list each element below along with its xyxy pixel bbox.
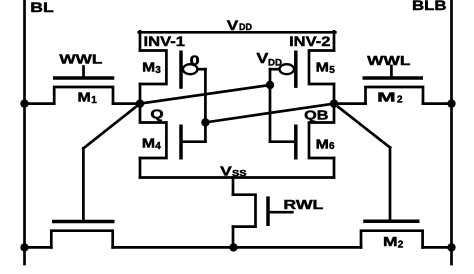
transistor M3 (PMOS of INV-1) (140, 51, 181, 89)
INV-2 input net (vertical) (269, 69, 272, 142)
svg-text:QB: QB (304, 108, 328, 123)
svg-text:DD: DD (239, 22, 252, 32)
gate bubble of M3 (183, 64, 198, 74)
svg-text:M: M (316, 59, 329, 74)
svg-text:M: M (377, 89, 396, 104)
wire M5 drain to node QB (333, 84, 336, 104)
svg-text:M: M (316, 136, 329, 151)
VSS rail (140, 176, 334, 179)
wire node QB to M2 read gate (diagonal) (334, 104, 390, 148)
transistor M4 (NMOS of INV-1) (140, 104, 205, 160)
transistor RWL (read enable) (233, 195, 292, 227)
wire BL to M1 source (25, 102, 55, 105)
svg-text:V: V (220, 163, 232, 178)
wire M5 bubble to INV-2 input (270, 68, 279, 71)
svg-text:M: M (142, 136, 155, 151)
svg-text:2: 2 (398, 239, 404, 250)
junction BL top (20, 99, 28, 107)
junction on INV-2 input (266, 81, 274, 89)
svg-text:3: 3 (155, 65, 161, 76)
svg-text:BLB: BLB (412, 0, 447, 13)
transistor M6 (NMOS of INV-2) (270, 104, 334, 160)
INV-1 input net (vertical) (204, 69, 207, 142)
svg-text:0: 0 (190, 53, 200, 68)
wire VDD to M3 source (139, 31, 142, 50)
svg-text:M: M (78, 90, 91, 105)
read transistor gate lead (left) (82, 148, 85, 221)
svg-text:WWL: WWL (367, 53, 410, 68)
svg-text:INV-2: INV-2 (289, 34, 330, 50)
wire M1 to node Q (113, 102, 140, 105)
svg-text:INV-1: INV-1 (144, 34, 186, 50)
bottom wire BL to read transistor (25, 246, 52, 249)
bit line BLB (right vertical rail) (450, 0, 453, 264)
svg-text:Q: Q (150, 107, 163, 122)
svg-text:M: M (383, 234, 398, 249)
M2 read gate lead (389, 148, 392, 222)
bit line BL (left vertical rail) (23, 0, 26, 264)
gate bubble of M5 (279, 64, 294, 74)
svg-text:RWL: RWL (283, 197, 323, 212)
junction BLB bottom (447, 243, 455, 251)
svg-text:4: 4 (155, 141, 161, 152)
wire node Q to INV-2 input (cross couple diagonal) (140, 85, 270, 104)
svg-text:DD: DD (268, 57, 282, 68)
svg-text:5: 5 (329, 65, 335, 76)
node QB junction (330, 99, 338, 107)
svg-text:V: V (227, 17, 239, 33)
wire M3 bubble to INV-1 input (198, 68, 206, 71)
svg-text:6: 6 (329, 141, 335, 152)
junction on INV-1 input (201, 118, 209, 126)
junction RWL source on bottom wire (229, 243, 237, 251)
wire M4 source to VSS (139, 158, 142, 178)
transistor M2 (read, BLB side) (361, 221, 423, 247)
wire VDD to M5 source (333, 31, 336, 50)
junction BLB top (447, 99, 455, 107)
bottom wire RWL junction to M2 read (234, 246, 362, 249)
svg-text:V: V (256, 50, 268, 67)
svg-text:1: 1 (91, 95, 97, 106)
wire node Q to read transistor gate (diagonal) (83, 104, 140, 149)
VDD rail (139, 31, 336, 34)
transistor M2 (write access, BLB side) (363, 66, 424, 104)
read transistor (left, unlabeled) (51, 222, 114, 248)
bottom wire read transistor to RWL junction (113, 246, 234, 249)
transistor M5 (PMOS of INV-2) (296, 51, 334, 88)
svg-text:M: M (142, 59, 155, 74)
svg-text:WWL: WWL (59, 51, 102, 66)
wire INV-1 input to node QB (cross couple diagonal) (205, 104, 334, 123)
wire VSS to RWL transistor (232, 178, 235, 195)
wire RWL transistor to bottom wire (232, 227, 235, 248)
bottom wire M2 read to BLB (423, 246, 452, 249)
node Q junction (136, 99, 144, 107)
wire M2 to BLB (423, 102, 452, 105)
wire M3 drain to node Q (139, 84, 142, 104)
svg-text:2: 2 (397, 95, 403, 106)
svg-text:BL: BL (30, 0, 54, 15)
wire QB to M2 write transistor (334, 102, 366, 105)
wire M6 source to VSS (333, 158, 336, 178)
junction BL bottom (20, 243, 28, 251)
transistor M1 (write access, BL side) (53, 67, 114, 104)
